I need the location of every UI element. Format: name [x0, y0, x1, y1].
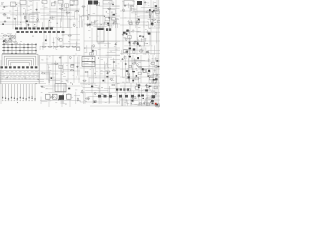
resistor R31 [58, 99, 62, 100]
capacitor C7 [144, 2, 147, 4]
connector CN2 [116, 88, 129, 90]
IC U114 [67, 94, 72, 99]
resistor R24 [83, 80, 87, 81]
wire [123, 58, 160, 83]
resistor R15 [8, 40, 12, 41]
resistor R19 [129, 42, 130, 46]
resistor R40 [48, 46, 52, 47]
capacitor C21 [143, 102, 146, 104]
resistor R4 [75, 11, 79, 12]
resistor R28 [107, 71, 111, 72]
transistor Q100 [152, 95, 156, 98]
capacitor C16 [113, 61, 116, 63]
capacitor C210 [9, 38, 12, 40]
wire [1, 0, 159, 108]
resistor R33 [50, 97, 54, 98]
wire [122, 31, 160, 55]
diode D8 [45, 39, 47, 41]
resistor R9 [87, 16, 88, 20]
diode D22 [91, 86, 93, 88]
transistor Q17 [87, 98, 89, 101]
resistor R12 [152, 19, 156, 20]
annotation text [87, 59, 115, 83]
annotation text [1, 33, 14, 38]
if section 3 [112, 18, 119, 26]
resistor R201 [7, 17, 11, 18]
annotation text [2, 34, 15, 43]
IC U200 [29, 14, 38, 22]
power section 2 [126, 65, 157, 72]
capacitor C13 [146, 51, 149, 53]
IC U2 [65, 4, 69, 7]
diode D7 [155, 5, 157, 7]
IC U4 [111, 18, 115, 20]
transistor Q6 [12, 36, 14, 39]
connector J4 [103, 0, 112, 4]
capacitor C200 [4, 21, 7, 23]
connector J3 [58, 0, 63, 3]
IC U15 [94, 101, 97, 103]
IC U13 [59, 65, 63, 68]
capacitor C4 [3, 6, 6, 8]
IC U1 [51, 3, 55, 6]
diode matrix D100-D135 [2, 43, 37, 55]
capacitor C15 [76, 66, 79, 68]
resistor R16 [14, 35, 15, 39]
wire [44, 56, 77, 83]
resistor R14 [5, 39, 6, 43]
transformer T1 [70, 0, 78, 5]
annotation text [45, 35, 80, 50]
diode D2 [108, 17, 110, 18]
IC U12 [70, 65, 73, 67]
diode D25 [143, 98, 144, 99]
capacitor C100 [106, 28, 111, 31]
resistor R21 [71, 64, 75, 65]
resistor R11 [152, 22, 153, 26]
diode D10 [142, 36, 144, 38]
diode D6 [152, 11, 154, 12]
resistor R2 [59, 8, 63, 9]
video section 2 [147, 9, 152, 16]
tuner section [151, 20, 161, 25]
resistor R41 [54, 46, 58, 47]
diode D210 [3, 41, 5, 42]
annotation text [1, 1, 37, 27]
wire junctions [4, 4, 156, 104]
video section 3 [127, 20, 132, 25]
transistor Q7 [58, 38, 60, 41]
diode D16 [156, 60, 158, 62]
diode D18 [125, 63, 127, 64]
capacitor C3 [27, 24, 30, 26]
capacitor C18 [121, 58, 124, 60]
oscillator can Y1 [97, 28, 104, 42]
annotation text [41, 1, 78, 28]
connector J1 [11, 2, 16, 7]
capacitor C19 [41, 86, 44, 88]
IC U110 [55, 84, 66, 92]
IC U101 [94, 1, 99, 5]
rf section 2 [128, 37, 146, 46]
transistor Q8 [93, 45, 95, 48]
resistor R32 [77, 98, 78, 102]
wire harness loops [2, 54, 38, 65]
capacitor C10 [134, 41, 137, 43]
resistor R6 [66, 12, 70, 13]
capacitor C1 [13, 18, 16, 20]
capacitor C6 [124, 5, 127, 7]
resistor R37 [139, 103, 143, 104]
wire [5, 33, 17, 43]
resistor R5 [70, 5, 74, 6]
annotation text [1, 2, 25, 11]
transistor Q2 [73, 24, 75, 27]
IC U5 [96, 3, 99, 6]
resistor R34 [82, 90, 83, 94]
resistor R43 [66, 46, 70, 47]
wire [122, 86, 160, 106]
capacitor C8 [114, 43, 117, 45]
transistor Q1 [37, 19, 39, 22]
resistor R22 [70, 70, 74, 71]
IC U102 [137, 1, 142, 5]
resistor R210 [3, 35, 7, 36]
wire [82, 5, 120, 28]
resistor R29 [138, 67, 142, 68]
IC U3 [105, 18, 109, 21]
resistor R23 [41, 73, 45, 74]
transistor Q19 [155, 92, 157, 95]
wire [128, 1, 160, 28]
resistor R8 [107, 8, 111, 9]
marker (red stamp) [155, 103, 157, 105]
power section 3 [128, 72, 158, 84]
resistor R26 [84, 71, 88, 72]
video section [130, 7, 136, 12]
resistor R18 [146, 52, 150, 53]
connector J2 [42, 0, 47, 3]
resistor R1 [24, 15, 25, 19]
resistor R200 [3, 14, 7, 15]
transistor Q5 [122, 9, 124, 12]
IC U10 [89, 53, 93, 55]
if section [87, 20, 97, 27]
diode D1 [26, 20, 28, 22]
IC U113 [59, 95, 64, 100]
diode D24 [149, 85, 151, 87]
diode D200 [2, 24, 4, 25]
diode D20 [68, 88, 70, 90]
annotation text [3, 1, 156, 103]
diode D4 [112, 4, 113, 5]
tuner section 2 [155, 8, 160, 12]
IC U116 [146, 98, 152, 103]
diode D14 [106, 76, 108, 77]
transistor Q4 [54, 1, 56, 4]
transistor Q9 [125, 38, 127, 41]
transistor Q3 [61, 4, 63, 7]
relay K2 [124, 1, 134, 6]
power section [124, 54, 158, 65]
wire [40, 35, 80, 50]
capacitor C20 [145, 84, 148, 86]
transistor Q10 [69, 56, 71, 59]
wire [0, 0, 40, 28]
transistor Q18 [153, 96, 155, 99]
resistor R35 [111, 84, 115, 85]
resistor R44 [72, 46, 76, 47]
capacitor C5 [107, 24, 110, 26]
resistor R25 [92, 62, 96, 63]
annotation text [41, 87, 73, 103]
transistor Q14 [149, 75, 151, 78]
relay K1 [20, 0, 26, 4]
IC U6 [156, 11, 160, 14]
annotation text [124, 1, 158, 28]
resistor R39 [42, 46, 46, 47]
capacitor C17 [106, 72, 109, 74]
resistor R27 [112, 70, 116, 71]
IC U7 [3, 40, 7, 43]
rf section 3 [126, 48, 144, 54]
sync section [136, 19, 139, 25]
resistor R38 [132, 98, 133, 102]
IC row C [98, 95, 134, 98]
diode D11 [139, 35, 141, 36]
transistor Q11 [110, 78, 112, 81]
annotation text [122, 56, 158, 83]
parts table [0, 55, 40, 84]
IC U8 [60, 39, 63, 42]
diode D15 [136, 75, 137, 77]
output section 3 [125, 99, 159, 107]
wire [41, 88, 80, 104]
annotation text [123, 28, 154, 54]
output section [123, 83, 157, 92]
annotation text [81, 2, 118, 26]
transistor Q16 [94, 92, 96, 95]
resistor R13 [149, 14, 150, 18]
capacitor C2 [35, 9, 38, 11]
wire [87, 41, 120, 55]
diode D9 [92, 50, 94, 52]
IC U100 [88, 1, 93, 5]
IC U14 [138, 72, 141, 74]
diode D23 [152, 103, 154, 105]
wire [83, 55, 120, 83]
capacitor C11 [138, 45, 141, 47]
capacitor C9 [122, 34, 125, 36]
wire [0, 6, 160, 106]
connector strip CN1 [0, 66, 37, 68]
diode D12 [51, 77, 53, 79]
IC U11 [123, 50, 127, 53]
wire [41, 4, 80, 28]
IC row A [15, 27, 53, 29]
annotation text [85, 42, 118, 53]
resistor R10 [130, 6, 134, 7]
diode D17 [147, 75, 149, 76]
IC U111 [46, 94, 51, 99]
wire [80, 84, 120, 104]
diode D3 [113, 14, 115, 16]
IC U112 [53, 94, 58, 99]
IC U17 [135, 86, 138, 89]
rf section [123, 29, 151, 38]
annotation text [41, 56, 68, 82]
resistor R7 [82, 6, 86, 7]
diode D5 [153, 10, 155, 12]
diode D19 [158, 66, 160, 68]
resistor R3 [49, 17, 53, 18]
annotation text [81, 83, 118, 101]
transistor Q13 [127, 73, 129, 76]
transistor Q12 [156, 74, 158, 77]
IC U115 [82, 57, 95, 67]
resistor R20 [54, 63, 58, 64]
IC U16 [132, 96, 136, 98]
IC row B [17, 31, 65, 33]
output section 2 [137, 94, 144, 98]
annotation text [124, 83, 157, 105]
capacitor C12 [132, 42, 135, 44]
if section 2 [103, 21, 109, 27]
capacitor C14 [59, 57, 62, 59]
resistor R42 [60, 46, 64, 47]
resistor R30 [132, 63, 136, 64]
resistor R36 [85, 98, 89, 99]
output pin array P1-P12 [2, 84, 36, 101]
diode D21 [94, 101, 96, 103]
resistor R17 [68, 35, 72, 36]
diode D13 [102, 80, 104, 82]
IC U9 [76, 48, 79, 51]
transistor Q15 [136, 64, 138, 67]
